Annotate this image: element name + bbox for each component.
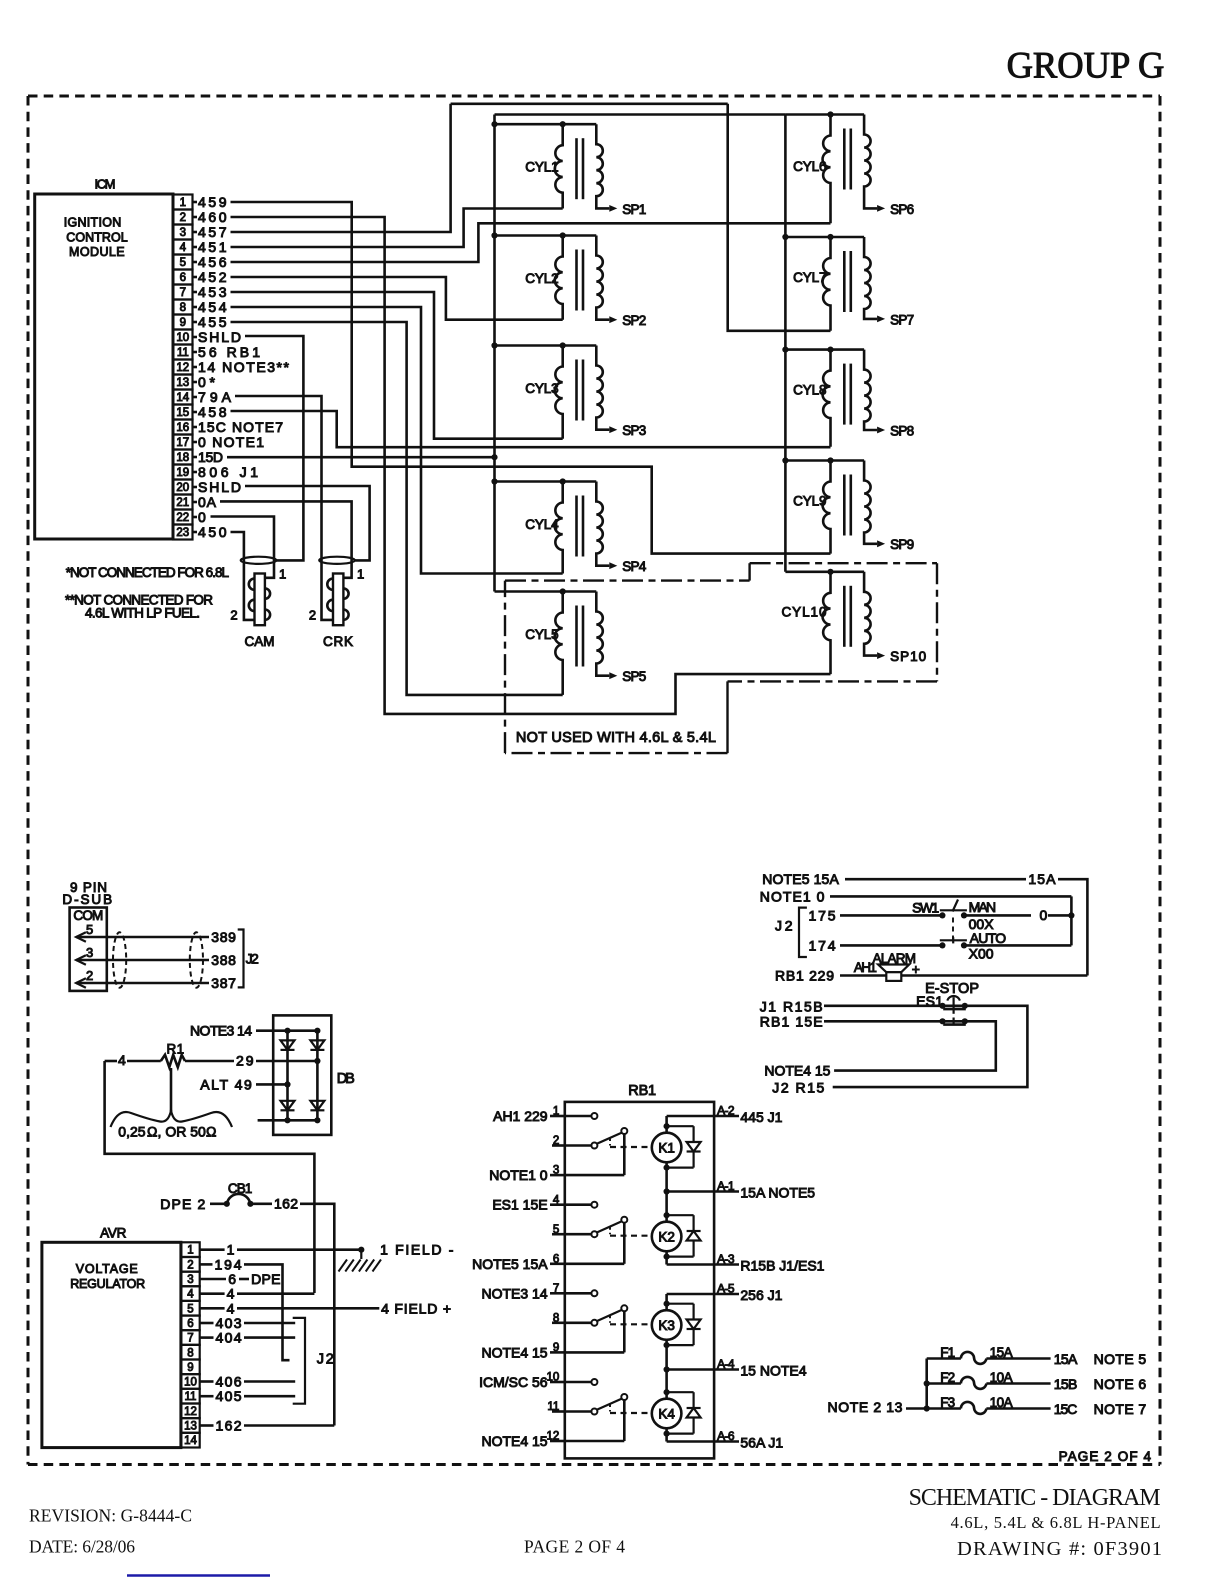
svg-text:8: 8 xyxy=(553,1313,559,1325)
svg-text:COM: COM xyxy=(73,908,103,923)
svg-text:NOTE 5: NOTE 5 xyxy=(1094,1351,1147,1367)
svg-text:DPE 2: DPE 2 xyxy=(160,1196,205,1212)
svg-text:403: 403 xyxy=(216,1315,242,1331)
svg-text:D-SUB: D-SUB xyxy=(62,892,112,907)
svg-text:0: 0 xyxy=(1040,907,1048,923)
svg-text:RB1: RB1 xyxy=(628,1083,656,1099)
svg-text:A-5: A-5 xyxy=(717,1281,735,1295)
svg-text:2: 2 xyxy=(230,608,237,623)
svg-text:GROUP G: GROUP G xyxy=(1007,45,1165,86)
svg-text:12: 12 xyxy=(547,1431,560,1443)
svg-text:SW1: SW1 xyxy=(912,899,939,915)
svg-text:457: 457 xyxy=(198,224,227,240)
svg-text:5: 5 xyxy=(553,1224,559,1236)
svg-text:4: 4 xyxy=(227,1286,235,1302)
svg-text:DRAWING #: 0F3901: DRAWING #: 0F3901 xyxy=(957,1538,1162,1560)
svg-text:IGNITION: IGNITION xyxy=(64,216,122,230)
svg-text:2: 2 xyxy=(187,1259,193,1271)
svg-text:9: 9 xyxy=(187,1362,193,1374)
svg-text:NOTE1 0: NOTE1 0 xyxy=(489,1167,548,1183)
svg-text:0,25: 0,25 xyxy=(118,1124,145,1140)
svg-text:9: 9 xyxy=(553,1342,559,1354)
svg-text:6: 6 xyxy=(553,1253,559,1265)
svg-text:455: 455 xyxy=(198,314,227,330)
svg-text:2: 2 xyxy=(309,608,316,623)
svg-text:20: 20 xyxy=(176,482,189,494)
svg-text:SP5: SP5 xyxy=(622,669,646,684)
svg-text:13: 13 xyxy=(184,1421,197,1433)
svg-text:SP4: SP4 xyxy=(622,559,646,574)
svg-text:CYL2: CYL2 xyxy=(525,271,558,286)
svg-text:AUTO: AUTO xyxy=(970,930,1007,946)
svg-text:VOLTAGE: VOLTAGE xyxy=(76,1262,138,1276)
svg-text:15A: 15A xyxy=(1054,1351,1078,1367)
svg-text:R1: R1 xyxy=(167,1041,185,1056)
svg-text:15C NOTE7: 15C NOTE7 xyxy=(198,419,283,435)
svg-text:CYL6: CYL6 xyxy=(793,159,826,174)
svg-text:5: 5 xyxy=(187,1303,193,1315)
svg-text:ALT 49: ALT 49 xyxy=(200,1076,252,1092)
svg-text:3: 3 xyxy=(180,227,186,239)
svg-text:15A NOTE5: 15A NOTE5 xyxy=(740,1185,815,1201)
svg-text:9: 9 xyxy=(180,317,186,329)
svg-text:7: 7 xyxy=(180,287,186,299)
svg-text:CYL10: CYL10 xyxy=(782,605,827,620)
svg-text:7: 7 xyxy=(187,1333,193,1345)
svg-text:J1 R15B: J1 R15B xyxy=(760,998,823,1014)
svg-text:459: 459 xyxy=(198,194,227,210)
svg-text:0A: 0A xyxy=(198,494,217,510)
svg-text:387: 387 xyxy=(211,975,236,991)
svg-text:15A: 15A xyxy=(1028,871,1056,887)
svg-text:A-4: A-4 xyxy=(717,1357,735,1371)
svg-text:445 J1: 445 J1 xyxy=(740,1109,782,1125)
svg-text:17: 17 xyxy=(176,437,189,449)
svg-text:CYL9: CYL9 xyxy=(793,493,826,508)
svg-text:1: 1 xyxy=(357,567,364,582)
svg-text:X00: X00 xyxy=(969,946,994,962)
svg-text:21: 21 xyxy=(176,497,189,509)
svg-text:MODULE: MODULE xyxy=(69,245,125,259)
svg-text:AH1 229: AH1 229 xyxy=(493,1108,548,1124)
svg-text:7: 7 xyxy=(553,1283,559,1295)
svg-text:23: 23 xyxy=(176,527,189,539)
svg-text:A-3: A-3 xyxy=(717,1252,735,1266)
svg-text:10A: 10A xyxy=(990,1395,1013,1410)
svg-text:A-6: A-6 xyxy=(717,1429,735,1443)
svg-text:6: 6 xyxy=(228,1271,236,1287)
svg-text:454: 454 xyxy=(198,299,227,315)
svg-text:SP7: SP7 xyxy=(890,312,914,327)
svg-text:CYL7: CYL7 xyxy=(793,270,826,285)
svg-text:1: 1 xyxy=(279,567,286,582)
svg-text:NOTE3 14: NOTE3 14 xyxy=(190,1023,252,1039)
svg-text:NOTE4 15: NOTE4 15 xyxy=(764,1063,830,1079)
svg-text:2: 2 xyxy=(553,1135,559,1147)
svg-text:12: 12 xyxy=(176,362,189,374)
svg-text:CYL5: CYL5 xyxy=(525,627,558,642)
svg-text:NOT USED WITH 4.6L & 5.4L: NOT USED WITH 4.6L & 5.4L xyxy=(516,730,716,746)
svg-text:CRK: CRK xyxy=(323,634,353,649)
svg-text:F3: F3 xyxy=(940,1395,955,1410)
svg-text:DPE: DPE xyxy=(251,1271,280,1287)
svg-text:405: 405 xyxy=(216,1388,242,1404)
svg-text:NOTE4 15: NOTE4 15 xyxy=(481,1433,547,1449)
svg-text:1: 1 xyxy=(227,1242,235,1258)
svg-text:CYL4: CYL4 xyxy=(525,517,559,532)
svg-text:J2 R15: J2 R15 xyxy=(772,1080,824,1096)
svg-text:22: 22 xyxy=(176,512,189,524)
svg-text:19: 19 xyxy=(176,467,189,479)
svg-text:4: 4 xyxy=(187,1289,194,1301)
svg-text:16: 16 xyxy=(176,422,189,434)
svg-text:162: 162 xyxy=(274,1195,298,1211)
svg-text:*NOT CONNECTED FOR 6.8L: *NOT CONNECTED FOR 6.8L xyxy=(66,565,230,580)
svg-text:PAGE 2 OF 4: PAGE 2 OF 4 xyxy=(1059,1449,1152,1464)
svg-text:REGULATOR: REGULATOR xyxy=(70,1277,145,1291)
svg-text:4: 4 xyxy=(180,242,187,254)
svg-text:J2: J2 xyxy=(775,918,793,934)
svg-text:4: 4 xyxy=(553,1194,560,1206)
svg-text:11: 11 xyxy=(177,347,189,359)
svg-text:14: 14 xyxy=(184,1435,197,1447)
svg-text:SP10: SP10 xyxy=(890,649,926,664)
svg-text:450: 450 xyxy=(198,524,227,540)
svg-text:404: 404 xyxy=(216,1330,242,1346)
svg-text:0: 0 xyxy=(198,509,206,525)
svg-text:451: 451 xyxy=(198,239,227,255)
svg-text:CB1: CB1 xyxy=(228,1181,252,1196)
svg-text:29: 29 xyxy=(236,1053,254,1069)
svg-text:15D: 15D xyxy=(198,449,223,465)
svg-text:NOTE 2 13: NOTE 2 13 xyxy=(828,1399,903,1415)
svg-text:+: + xyxy=(912,961,920,977)
svg-text:MAN: MAN xyxy=(969,899,997,915)
svg-text:NOTE5 15A: NOTE5 15A xyxy=(472,1256,548,1272)
svg-text:460: 460 xyxy=(198,209,227,225)
svg-text:DATE: 6/28/06: DATE: 6/28/06 xyxy=(29,1537,135,1557)
svg-text:K2: K2 xyxy=(658,1229,675,1244)
svg-text:J2: J2 xyxy=(246,951,259,967)
svg-text:15B: 15B xyxy=(1054,1376,1078,1392)
svg-text:18: 18 xyxy=(176,452,189,464)
svg-text:ICM: ICM xyxy=(95,177,116,192)
svg-text:175: 175 xyxy=(809,907,836,923)
svg-text:1 FIELD -: 1 FIELD - xyxy=(380,1242,454,1258)
svg-text:10A: 10A xyxy=(990,1370,1013,1385)
svg-text:4: 4 xyxy=(227,1300,235,1316)
svg-text:6: 6 xyxy=(180,272,186,284)
svg-text:3: 3 xyxy=(553,1165,559,1177)
svg-text:SP6: SP6 xyxy=(890,202,914,217)
svg-text:15A: 15A xyxy=(990,1345,1013,1360)
svg-text:11: 11 xyxy=(547,1401,559,1413)
svg-text:CAM: CAM xyxy=(245,634,275,649)
svg-text:RB1 229: RB1 229 xyxy=(775,968,834,984)
svg-text:NOTE4 15: NOTE4 15 xyxy=(481,1344,547,1360)
svg-text:10: 10 xyxy=(547,1372,560,1384)
svg-text:F1: F1 xyxy=(940,1345,955,1360)
svg-text:10: 10 xyxy=(184,1377,197,1389)
svg-text:452: 452 xyxy=(198,269,227,285)
svg-text:453: 453 xyxy=(198,284,227,300)
svg-text:F2: F2 xyxy=(940,1370,955,1385)
svg-text:56A J1: 56A J1 xyxy=(740,1435,783,1451)
svg-text:3: 3 xyxy=(187,1274,193,1286)
svg-text:SP3: SP3 xyxy=(622,423,646,438)
svg-text:389: 389 xyxy=(211,929,236,945)
svg-text:J2: J2 xyxy=(317,1352,334,1368)
svg-text:NOTE1 0: NOTE1 0 xyxy=(760,888,825,904)
svg-text:8: 8 xyxy=(187,1347,193,1359)
svg-text:162: 162 xyxy=(216,1418,242,1434)
svg-text:12: 12 xyxy=(184,1406,197,1418)
svg-text:K4: K4 xyxy=(658,1406,675,1421)
svg-text:CYL3: CYL3 xyxy=(525,381,558,396)
svg-text:5: 5 xyxy=(86,922,93,937)
svg-text:K3: K3 xyxy=(658,1318,675,1333)
svg-text:K1: K1 xyxy=(658,1140,675,1155)
svg-text:Ω, OR 50Ω: Ω, OR 50Ω xyxy=(147,1124,217,1140)
svg-text:RB1 15E: RB1 15E xyxy=(760,1013,823,1029)
svg-text:ICM/SC 56: ICM/SC 56 xyxy=(479,1374,548,1390)
svg-text:14: 14 xyxy=(176,392,189,404)
svg-text:4: 4 xyxy=(118,1052,126,1068)
svg-text:174: 174 xyxy=(809,937,836,953)
svg-text:4.6L WITH LP FUEL.: 4.6L WITH LP FUEL. xyxy=(85,606,200,621)
svg-text:AVR: AVR xyxy=(100,1225,127,1240)
svg-text:SP8: SP8 xyxy=(890,423,914,438)
svg-text:4 FIELD +: 4 FIELD + xyxy=(381,1300,451,1316)
svg-text:PAGE 2 OF 4: PAGE 2 OF 4 xyxy=(524,1537,625,1557)
svg-text:A-1: A-1 xyxy=(717,1179,735,1193)
svg-text:3: 3 xyxy=(86,945,93,960)
svg-text:406: 406 xyxy=(216,1374,242,1390)
svg-text:NOTE 7: NOTE 7 xyxy=(1094,1401,1147,1417)
svg-text:2: 2 xyxy=(180,212,186,224)
svg-text:15: 15 xyxy=(176,407,189,419)
svg-text:NOTE 6: NOTE 6 xyxy=(1094,1376,1147,1392)
svg-text:13: 13 xyxy=(176,377,189,389)
svg-text:DB: DB xyxy=(337,1071,355,1087)
svg-text:194: 194 xyxy=(215,1256,242,1272)
svg-text:11: 11 xyxy=(185,1391,197,1403)
svg-text:2: 2 xyxy=(86,968,93,983)
svg-text:6: 6 xyxy=(187,1318,193,1330)
svg-text:8: 8 xyxy=(180,302,186,314)
svg-text:CYL8: CYL8 xyxy=(793,383,826,398)
svg-text:1: 1 xyxy=(180,197,186,209)
svg-text:1: 1 xyxy=(553,1106,559,1118)
svg-text:NOTE3 14: NOTE3 14 xyxy=(481,1285,547,1301)
svg-text:AH1: AH1 xyxy=(854,960,877,975)
svg-text:CONTROL: CONTROL xyxy=(66,231,127,245)
svg-text:15 NOTE4: 15 NOTE4 xyxy=(740,1363,806,1379)
svg-text:388: 388 xyxy=(211,952,236,968)
svg-text:14 NOTE3**: 14 NOTE3** xyxy=(198,359,290,375)
svg-text:SP2: SP2 xyxy=(622,313,646,328)
svg-text:0 NOTE1: 0 NOTE1 xyxy=(198,434,264,450)
svg-text:79A: 79A xyxy=(198,389,232,405)
svg-text:1: 1 xyxy=(187,1245,193,1257)
svg-text:ES1 15E: ES1 15E xyxy=(492,1197,547,1213)
svg-text:CYL1: CYL1 xyxy=(525,160,558,175)
svg-text:A-2: A-2 xyxy=(717,1103,735,1117)
svg-text:456: 456 xyxy=(198,254,227,270)
svg-text:SP9: SP9 xyxy=(890,537,914,552)
svg-text:15C: 15C xyxy=(1054,1401,1078,1417)
svg-text:458: 458 xyxy=(198,404,227,420)
svg-text:SCHEMATIC - DIAGRAM: SCHEMATIC - DIAGRAM xyxy=(909,1485,1161,1511)
svg-text:REVISION: G-8444-C: REVISION: G-8444-C xyxy=(29,1506,192,1526)
svg-text:5: 5 xyxy=(180,257,186,269)
svg-text:4.6L, 5.4L & 6.8L H-PANEL: 4.6L, 5.4L & 6.8L H-PANEL xyxy=(951,1513,1161,1532)
svg-text:NOTE5 15A: NOTE5 15A xyxy=(762,871,839,887)
svg-text:R15B J1/ES1: R15B J1/ES1 xyxy=(740,1258,824,1274)
svg-text:256 J1: 256 J1 xyxy=(740,1287,782,1303)
svg-text:10: 10 xyxy=(176,332,189,344)
svg-text:SP1: SP1 xyxy=(622,202,646,217)
